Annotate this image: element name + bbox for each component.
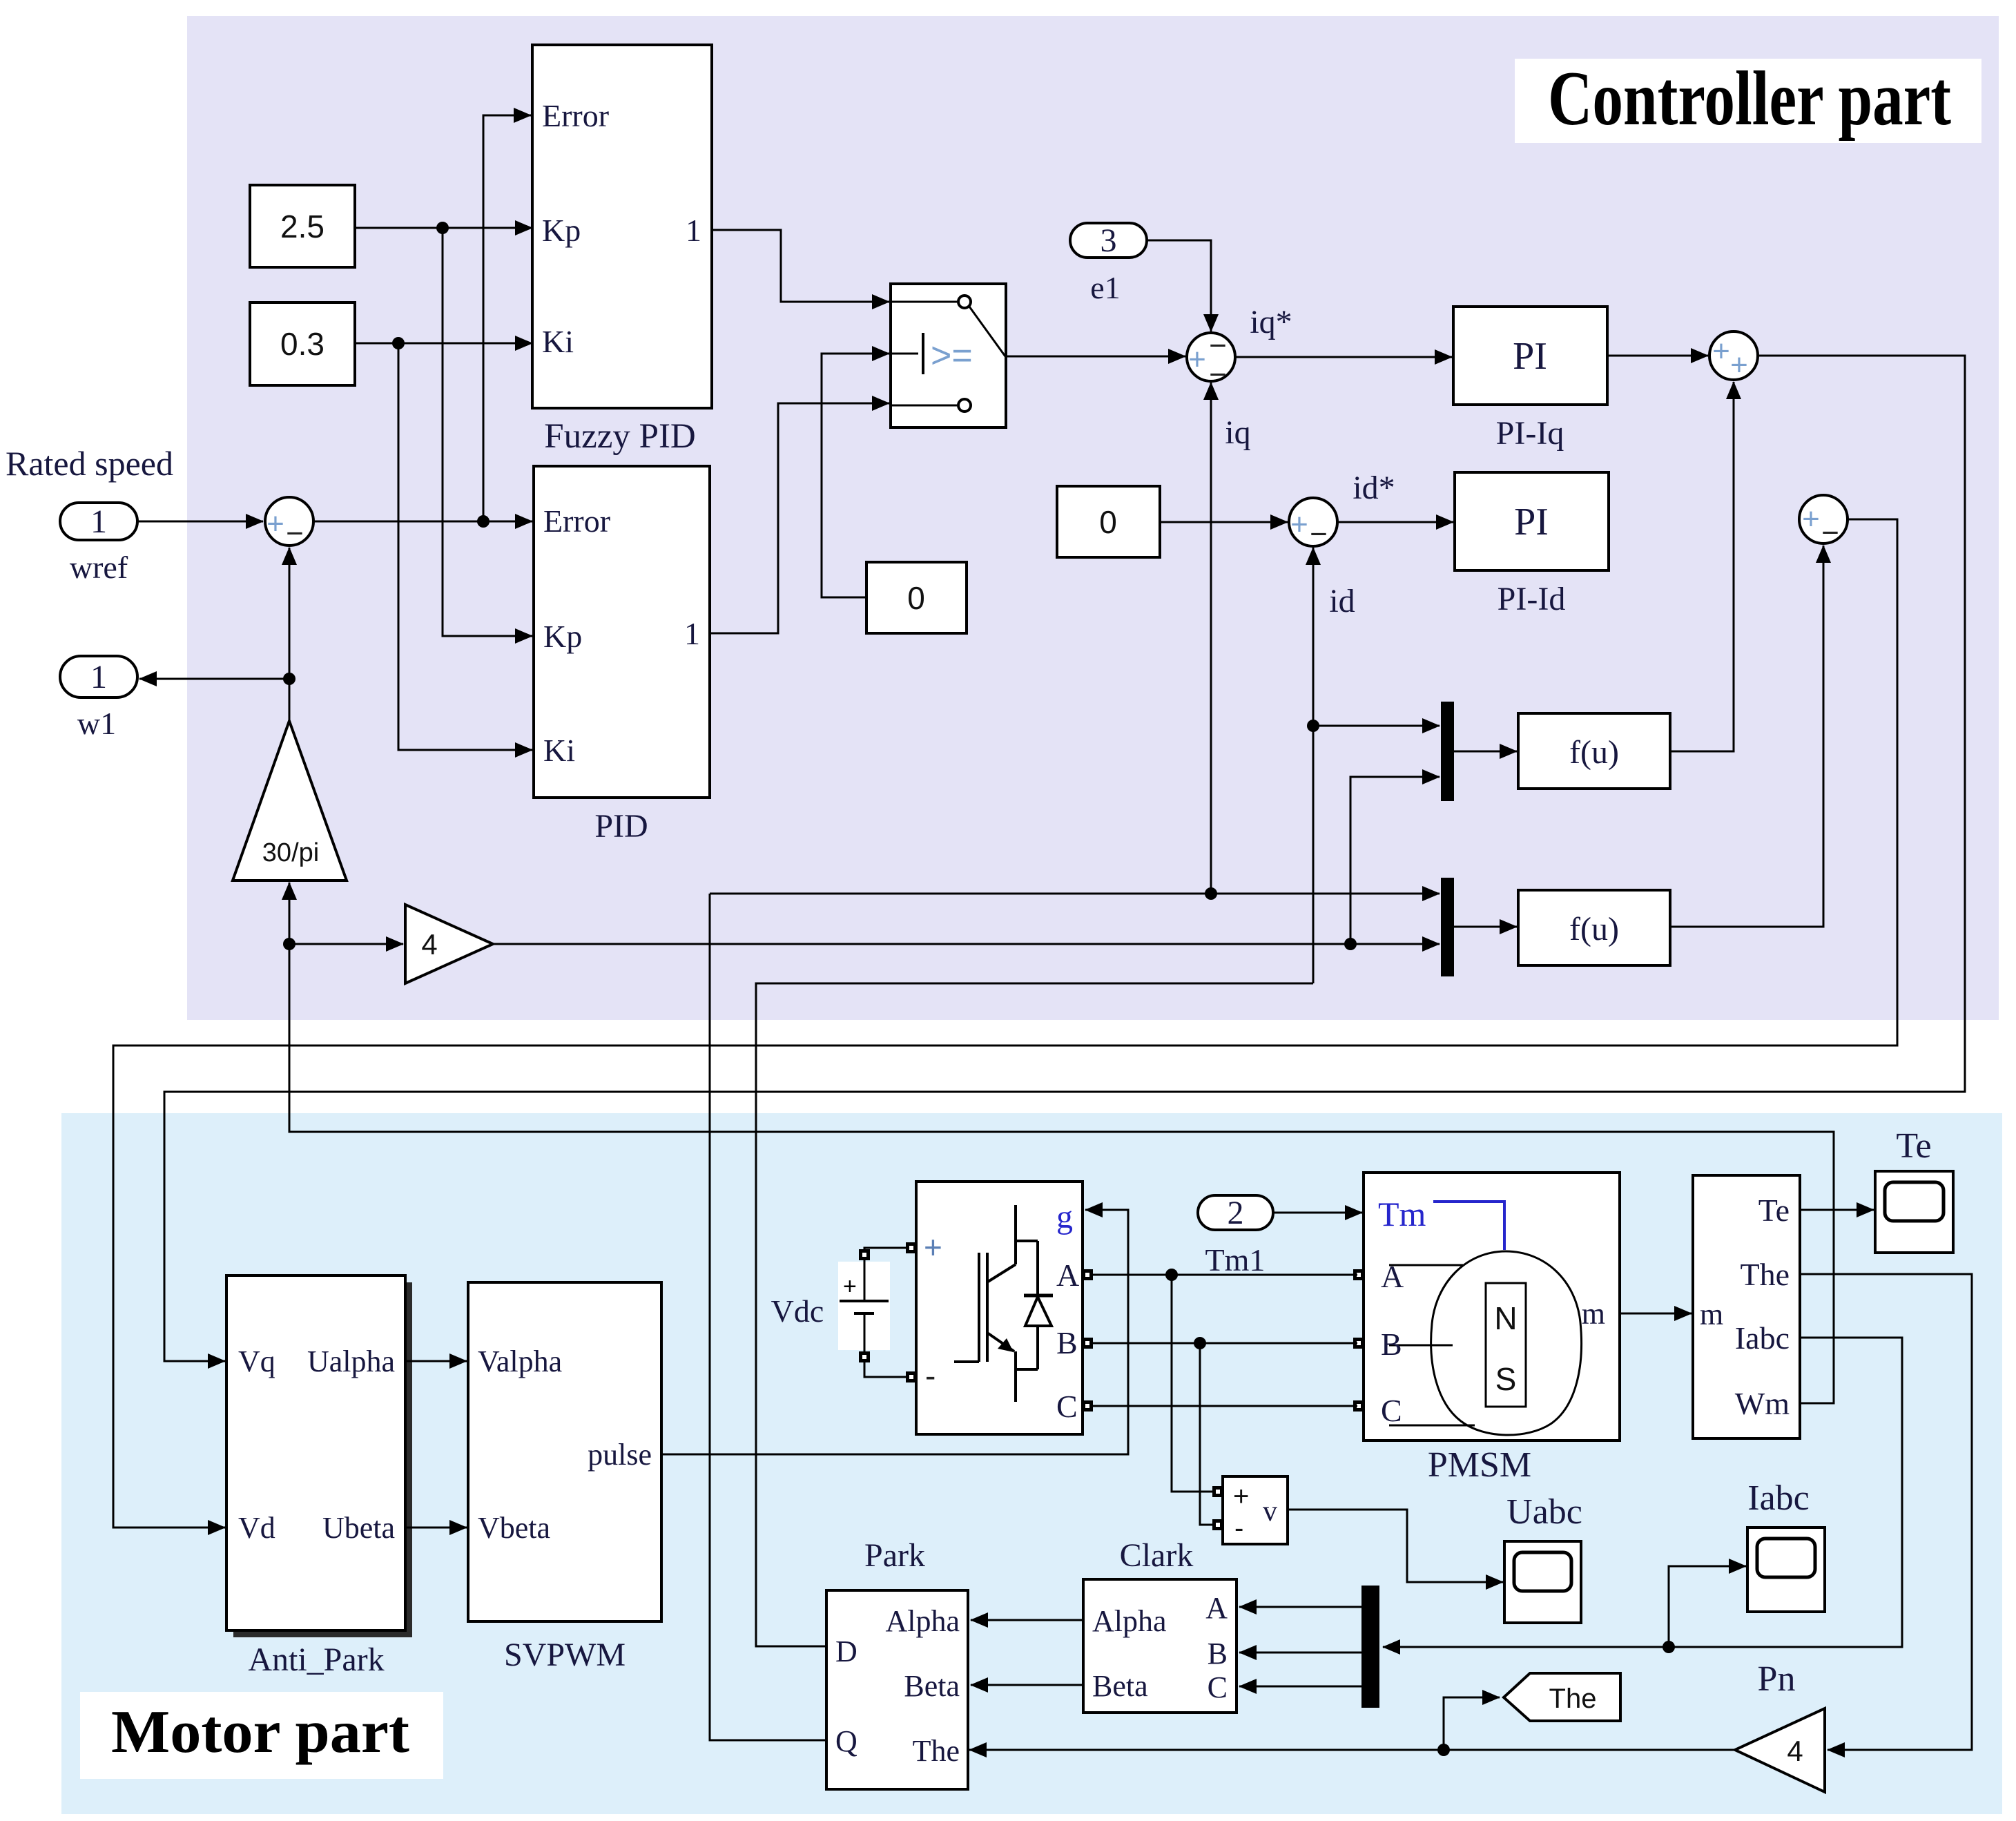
svg-text:C: C <box>1381 1393 1402 1428</box>
svg-text:3: 3 <box>1101 222 1117 259</box>
svg-text:Ubeta: Ubeta <box>322 1511 395 1545</box>
svg-text:Ki: Ki <box>543 733 575 768</box>
scope Uabc <box>1504 1492 1582 1623</box>
svg-text:f(u): f(u) <box>1569 734 1619 771</box>
junction dot B <box>1194 1337 1206 1349</box>
wire gain4Pn out to Park The <box>969 1749 1735 1751</box>
wire Ki branch to PID Ki <box>398 343 532 750</box>
svg-text:Vdc: Vdc <box>771 1293 824 1329</box>
svg-text:+: + <box>1290 508 1308 541</box>
wire battery minus to inverter <box>864 1362 907 1377</box>
wire e1 to iq sum <box>1147 240 1211 331</box>
machine measurement block <box>1693 1175 1800 1438</box>
wire iq sum to PI-Iq <box>1235 356 1452 358</box>
mux 2 <box>1441 878 1454 976</box>
svg-text:Kp: Kp <box>543 619 582 654</box>
sum junction speed error <box>265 497 313 550</box>
svg-text:Valpha: Valpha <box>478 1345 562 1378</box>
svg-text:N: N <box>1494 1300 1517 1336</box>
svg-text:D: D <box>835 1635 857 1668</box>
svg-text:Vq: Vq <box>238 1345 275 1378</box>
svg-text:Iabc: Iabc <box>1747 1478 1809 1518</box>
wire pulse to inverter g <box>661 1210 1128 1454</box>
svg-text:−: − <box>1821 516 1839 550</box>
wire we to mux1 bottom <box>1350 777 1440 945</box>
wire battery plus to inverter <box>864 1248 907 1250</box>
gain 30/pi <box>233 721 347 880</box>
wire Iabc down <box>1383 1338 1902 1647</box>
svg-text:Beta: Beta <box>904 1669 960 1703</box>
svg-text:1: 1 <box>686 213 701 248</box>
svg-text:w1: w1 <box>77 706 116 741</box>
wire Tm1 to PMSM <box>1273 1212 1362 1214</box>
svg-text:-: - <box>1234 1513 1243 1543</box>
block PI-Iq <box>1453 307 1607 452</box>
wire Clark Alpha to Park <box>971 1619 1083 1621</box>
svg-text:A: A <box>1381 1259 1404 1294</box>
gain 4 Pn <box>1735 1708 1825 1792</box>
wire Fuzzy out to switch in1 <box>712 230 889 302</box>
svg-text:Vbeta: Vbeta <box>478 1511 550 1545</box>
svg-text:+: + <box>843 1273 857 1300</box>
svg-text:PMSM: PMSM <box>1428 1445 1531 1485</box>
PMSM block <box>1353 1173 1620 1485</box>
svg-text:Iabc: Iabc <box>1735 1320 1790 1356</box>
svg-text:Error: Error <box>543 503 610 539</box>
svg-text:+: + <box>1233 1481 1249 1512</box>
wire Vq sum to Anti_Park Vq <box>164 356 1965 1361</box>
svg-text:Ualpha: Ualpha <box>307 1345 395 1378</box>
svg-text:4: 4 <box>1787 1735 1803 1767</box>
label id* <box>1353 470 1395 506</box>
svg-text:0: 0 <box>1099 504 1117 540</box>
subsystem Park <box>826 1537 968 1789</box>
wire demux to Clark B <box>1239 1652 1361 1654</box>
wire id feedback up <box>1312 548 1315 983</box>
controller part shaded region <box>187 16 1999 1020</box>
svg-text:Alpha: Alpha <box>885 1604 960 1638</box>
junction dot wm <box>283 938 295 950</box>
wire phase A <box>1092 1274 1357 1276</box>
svg-text:A: A <box>1205 1591 1228 1625</box>
wire w1 branch <box>139 678 289 680</box>
svg-text:Rated speed: Rated speed <box>6 444 173 483</box>
svg-text:0.3: 0.3 <box>280 326 324 362</box>
subsystem Fuzzy PID <box>532 45 712 456</box>
junction dot error <box>477 515 490 528</box>
svg-text:id: id <box>1329 583 1355 619</box>
wire iq return to mux2 top <box>710 893 1440 895</box>
svg-text:The: The <box>913 1734 960 1768</box>
sum junction id <box>1289 498 1337 551</box>
svg-text:Tm1: Tm1 <box>1205 1242 1266 1278</box>
wire constant0 to switch in2 <box>822 354 889 597</box>
svg-text:Ki: Ki <box>542 324 574 359</box>
wire fu2 to Vd sum <box>1670 546 1823 927</box>
junction dot A <box>1165 1269 1178 1281</box>
svg-text:+: + <box>1712 334 1730 368</box>
svg-text:PI-Iq: PI-Iq <box>1496 415 1564 452</box>
svg-text:Error: Error <box>542 98 609 133</box>
svg-text:C: C <box>1208 1670 1228 1704</box>
svg-text:PI: PI <box>1514 501 1549 543</box>
wire constant0 to id sum <box>1160 521 1288 523</box>
wire mux2 to fu2 <box>1454 926 1517 928</box>
svg-text:−: − <box>286 517 304 550</box>
wire 0.3 to Fuzzy Ki <box>355 343 532 345</box>
svg-text:+: + <box>266 507 284 541</box>
svg-text:Kp: Kp <box>542 213 581 248</box>
svg-text:1: 1 <box>684 616 700 651</box>
svg-text:B: B <box>1056 1325 1078 1360</box>
svg-text:Tm: Tm <box>1378 1195 1426 1233</box>
wire Iabc to scope <box>1669 1566 1746 1647</box>
svg-text:The: The <box>1740 1257 1790 1292</box>
svg-text:Wm: Wm <box>1735 1386 1790 1421</box>
subsystem PID <box>534 466 710 845</box>
svg-text:2: 2 <box>1228 1195 1244 1231</box>
svg-text:B: B <box>1208 1637 1228 1670</box>
outport 1 w1 <box>60 656 137 741</box>
svg-text:Alpha: Alpha <box>1092 1604 1167 1638</box>
svg-text:S: S <box>1495 1361 1517 1397</box>
sum junction iq <box>1187 329 1235 392</box>
mux 1 <box>1441 702 1454 801</box>
wire iq feedback up <box>1210 383 1212 894</box>
wire v to Uabc scope <box>1288 1510 1503 1582</box>
junction dot Iabc <box>1663 1641 1675 1653</box>
switch block <box>891 284 1006 427</box>
wire speed sum to PID Error <box>314 521 532 523</box>
constant 2.5 <box>250 185 355 267</box>
subsystem Clark <box>1083 1537 1237 1713</box>
svg-text:PI-Id: PI-Id <box>1498 581 1566 617</box>
svg-text:m: m <box>1700 1298 1723 1331</box>
junction dot Kp <box>436 222 449 234</box>
svg-text:m: m <box>1582 1297 1605 1331</box>
svg-text:The: The <box>1549 1684 1597 1714</box>
svg-text:4: 4 <box>421 928 437 961</box>
wire Vd sum to Anti_Park Vd <box>113 519 1897 1528</box>
wire 30pi out to speed sum <box>289 548 291 721</box>
wire gain4 out to mux2 bottom <box>493 943 1440 945</box>
demux Iabc <box>1361 1586 1379 1708</box>
svg-text:Anti_Park: Anti_Park <box>248 1641 384 1678</box>
wire mux1 to fu1 <box>1454 751 1517 753</box>
motor part shaded region <box>61 1113 2002 1814</box>
wire wm to gain4 <box>289 943 403 945</box>
svg-text:2.5: 2.5 <box>280 209 324 244</box>
svg-text:+: + <box>924 1229 942 1265</box>
svg-text:Te: Te <box>1896 1126 1931 1166</box>
svg-text:>=: >= <box>931 336 973 376</box>
subsystem Anti_Park <box>226 1275 412 1678</box>
label Vdc <box>771 1293 824 1329</box>
svg-text:e1: e1 <box>1090 270 1120 305</box>
label id <box>1329 583 1355 619</box>
inverter block <box>906 1182 1093 1434</box>
svg-text:Fuzzy PID: Fuzzy PID <box>544 417 696 456</box>
svg-text:SVPWM: SVPWM <box>504 1637 626 1673</box>
svg-text:30/pi: 30/pi <box>262 838 319 867</box>
junction dot id <box>1307 720 1319 732</box>
wire m to measurement <box>1620 1313 1692 1315</box>
gain 4 (pole pairs) <box>405 905 493 983</box>
svg-text:id*: id* <box>1353 470 1395 506</box>
svg-text:Pn: Pn <box>1758 1659 1796 1699</box>
svg-text:-: - <box>925 1358 936 1394</box>
wire phase C <box>1092 1405 1357 1407</box>
svg-text:Vd: Vd <box>238 1511 275 1545</box>
wire demux to Clark A <box>1239 1606 1361 1608</box>
wire fu1 to Vq sum <box>1670 382 1734 751</box>
svg-text:g: g <box>1056 1199 1073 1235</box>
junction dot we <box>1344 938 1357 950</box>
svg-text:1: 1 <box>90 659 107 695</box>
wire Kp branch to PID Kp <box>443 228 532 636</box>
svg-text:Clark: Clark <box>1120 1537 1194 1574</box>
label Rated speed <box>6 444 173 483</box>
svg-text:C: C <box>1056 1389 1078 1424</box>
svg-text:A: A <box>1056 1258 1079 1293</box>
svg-text:PI: PI <box>1513 335 1547 378</box>
wire Park D to id loop <box>756 983 1313 1646</box>
svg-text:Motor part: Motor part <box>111 1699 409 1766</box>
svg-text:v: v <box>1263 1496 1277 1528</box>
scope Iabc <box>1747 1478 1825 1612</box>
svg-text:+: + <box>1802 502 1820 536</box>
constant 0 (switch) <box>866 562 967 633</box>
constant 0.3 <box>250 302 355 385</box>
sum junction Vd <box>1799 495 1848 550</box>
wire 2.5 to Fuzzy Kp <box>355 227 532 229</box>
wire The branch to goto <box>1444 1697 1500 1750</box>
wire Ualpha to Valpha <box>405 1360 467 1362</box>
svg-text:1: 1 <box>90 503 107 540</box>
svg-text:wref: wref <box>70 550 128 585</box>
svg-text:PID: PID <box>594 808 648 845</box>
block f(u) upper <box>1518 713 1670 789</box>
junction dot Ki <box>392 337 405 349</box>
svg-text:iq: iq <box>1225 414 1250 451</box>
wire Te to scope <box>1800 1209 1874 1211</box>
motor part title <box>80 1692 443 1779</box>
wire Ubeta to Vbeta <box>405 1527 467 1529</box>
wire id sum to PI-Id <box>1337 521 1453 523</box>
svg-text:f(u): f(u) <box>1569 911 1619 947</box>
svg-text:iq*: iq* <box>1250 304 1292 340</box>
inport 3 e1 <box>1070 222 1147 305</box>
svg-text:+: + <box>1730 348 1748 382</box>
svg-text:+: + <box>1188 343 1206 376</box>
junction dot The <box>1437 1744 1450 1756</box>
svg-text:Park: Park <box>864 1537 925 1574</box>
wire Clark Beta to Park <box>971 1684 1083 1686</box>
wire PI-Iq to Vq sum <box>1607 355 1708 357</box>
wire The down <box>1800 1274 1972 1750</box>
wire PID out to switch in3 <box>710 403 889 633</box>
subsystem SVPWM <box>468 1282 661 1673</box>
wire Wm feedback <box>289 883 1834 1403</box>
junction dot w1 <box>283 673 295 685</box>
wire A tap to voltmeter <box>1172 1275 1213 1492</box>
wire id to mux1 top <box>1313 725 1440 727</box>
controller part title <box>1515 56 1981 143</box>
sum junction Vq <box>1709 331 1758 382</box>
svg-text:pulse: pulse <box>588 1438 652 1472</box>
svg-text:Controller part: Controller part <box>1548 56 1951 142</box>
inport 2 Tm1 <box>1198 1195 1273 1278</box>
block PI-Id <box>1455 472 1609 617</box>
label Pn <box>1758 1659 1796 1699</box>
battery Vdc <box>838 1249 890 1362</box>
svg-text:B: B <box>1381 1327 1402 1362</box>
svg-text:0: 0 <box>907 580 925 616</box>
label iq* <box>1250 304 1292 340</box>
junction dot iq <box>1205 887 1217 900</box>
constant 0 (id ref) <box>1057 486 1160 557</box>
wire Park Q to iq loop <box>710 894 826 1740</box>
label iq <box>1225 414 1250 451</box>
block f(u) lower <box>1518 890 1670 965</box>
wire B tap to voltmeter <box>1200 1343 1213 1525</box>
inport 1 wref <box>60 503 137 585</box>
svg-text:Beta: Beta <box>1092 1669 1148 1703</box>
wire phase B <box>1092 1342 1357 1345</box>
goto tag The <box>1504 1673 1620 1721</box>
wire error branch to Fuzzy Error <box>483 115 531 521</box>
scope Te <box>1875 1126 1953 1253</box>
wire switch out to iq sum <box>1006 356 1185 358</box>
wire demux to Clark C <box>1239 1686 1361 1688</box>
voltage measurement v <box>1212 1476 1288 1544</box>
svg-text:Q: Q <box>835 1724 857 1758</box>
svg-text:Uabc: Uabc <box>1506 1492 1582 1532</box>
svg-text:−: − <box>1310 517 1328 551</box>
svg-text:Te: Te <box>1758 1193 1790 1228</box>
wire wref to speed sum <box>137 521 263 523</box>
